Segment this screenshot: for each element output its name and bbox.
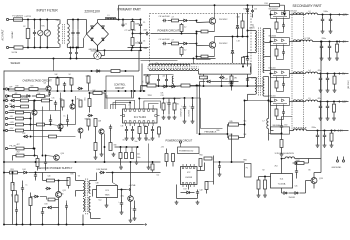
junction — [64, 90, 66, 92]
toroid winding 41 — [293, 40, 303, 42]
wire C3 top — [72, 20, 74, 30]
wire r54 down — [12, 191, 14, 225]
wire ovp top link — [49, 77, 72, 79]
mag amp coil — [294, 129, 307, 131]
svg-text:10u: 10u — [157, 175, 160, 177]
capacitor C13 — [246, 77, 249, 82]
wire ps-on 2 — [24, 148, 35, 150]
svg-text:POWER CIRCUIT: POWER CIRCUIT — [158, 29, 180, 33]
wire T1 tap 3 — [264, 56, 270, 58]
wire +5V sense out — [24, 118, 31, 120]
wire feedback vertical 2 — [196, 86, 198, 135]
capacitor C20 vcc — [183, 104, 186, 110]
wire C snub lead — [122, 20, 124, 23]
resistor R19 — [15, 88, 24, 91]
pin LM339 bottom 3 — [190, 183, 192, 185]
wire drive L down — [173, 84, 175, 86]
wire r48 d — [166, 162, 168, 167]
wire snub r2 101 — [276, 116, 278, 120]
wire T1 tap 1 — [264, 28, 270, 30]
wire reg right v — [320, 159, 322, 173]
capacitor CY1 — [69, 51, 72, 56]
junction — [129, 102, 131, 104]
transistor Q11 — [56, 192, 62, 198]
capacitor CY2 — [75, 51, 78, 56]
svg-text:220VAC: 220VAC — [11, 31, 14, 39]
svg-text:R50: R50 — [200, 155, 203, 157]
capacitor C22 — [230, 81, 233, 87]
junction — [317, 130, 319, 132]
resistor load -5V — [333, 76, 336, 84]
wire choke A bottom — [59, 44, 61, 48]
arrow +5V — [338, 41, 341, 43]
wire r59 u — [258, 177, 260, 181]
wire r56 d — [68, 186, 70, 189]
capacitor C11 vcc — [191, 104, 194, 110]
wire T4 tap down — [75, 191, 77, 197]
wire r60 u — [264, 177, 266, 181]
svg-text:Q3: Q3 — [44, 83, 46, 85]
wire snub r 14 — [276, 18, 278, 23]
junction — [34, 19, 36, 21]
wire bridge plus up — [97, 20, 99, 23]
wire ic3 in jog — [113, 183, 118, 186]
terminal left 100 — [5, 99, 7, 101]
wire r55 down — [30, 206, 32, 225]
transistor Q6b — [58, 124, 63, 129]
T2 core dash 1 — [148, 66, 199, 68]
wire +12V sense out — [24, 124, 31, 126]
resistor R71 — [131, 153, 134, 159]
junction — [91, 70, 93, 72]
wire c30-r47 — [281, 134, 283, 140]
wire R39 d — [174, 110, 176, 115]
wire q13 c — [313, 173, 315, 178]
wire shield parallel segment — [141, 59, 178, 61]
svg-text:C15: C15 — [52, 97, 55, 99]
IC U2 LM339 — [181, 167, 198, 185]
transistor Q8 — [78, 128, 83, 133]
diode D16 — [206, 80, 212, 83]
junction — [270, 41, 272, 43]
junction — [196, 20, 198, 22]
wire c39 d — [219, 169, 221, 173]
wire ctl vert 49 — [49, 98, 51, 111]
wire snub c2 14 — [283, 28, 285, 33]
wire R42b u — [158, 126, 160, 127]
wire R35-R36 — [95, 127, 97, 143]
resistor R49 — [172, 154, 175, 162]
terminal GROUND 2 — [342, 160, 344, 162]
wire R21 top — [57, 77, 59, 80]
toroid winding 73 — [293, 72, 303, 74]
wire D5 to base node — [189, 20, 197, 22]
junction — [137, 146, 139, 148]
svg-text:POWERGOOD: POWERGOOD — [179, 151, 194, 153]
ground pg2 — [196, 201, 200, 205]
wire z2 — [16, 100, 21, 102]
svg-text:1n: 1n — [26, 185, 28, 187]
wire -5V rail — [318, 73, 349, 75]
arrow +12V — [338, 14, 341, 16]
wire pg label lead — [180, 143, 182, 147]
wire gnd c drop — [148, 144, 150, 166]
wire +5V cap gnd lead — [321, 49, 323, 57]
junction — [247, 85, 249, 87]
wire z1 — [8, 100, 11, 102]
resistor R5 — [172, 19, 179, 22]
svg-text:D17: D17 — [184, 189, 187, 191]
ground R60 — [263, 194, 267, 198]
junction — [196, 85, 198, 87]
T4 secondary upper — [89, 181, 91, 194]
varistor Z1 — [44, 30, 50, 36]
wire drive lower rail — [199, 73, 252, 75]
dotted column 2 — [303, 13, 305, 132]
capacitor filter +5V x329 — [328, 44, 331, 49]
capacitor filter -12V x327 — [326, 104, 329, 109]
wire choke A top — [59, 20, 61, 25]
wire d27 l — [282, 192, 283, 194]
svg-text:R26: R26 — [217, 130, 220, 132]
wire snub r2 41 — [276, 56, 278, 60]
wire C35 d — [67, 123, 69, 127]
svg-text:2200u: 2200u — [312, 127, 317, 129]
junction — [82, 224, 84, 226]
wire c31r u — [296, 165, 298, 169]
wire C26 join — [284, 14, 286, 16]
diode D4 — [102, 38, 105, 41]
resistor snub 41 — [275, 49, 278, 56]
wire +3.3V sense out — [24, 112, 31, 114]
capacitor C27 — [21, 185, 24, 191]
T4 core dash 1 — [85, 179, 87, 215]
junction — [34, 100, 36, 102]
diode glyphs D21 — [273, 71, 287, 76]
pin 11 TL494 bottom — [138, 121, 140, 123]
svg-text:C8 1uF/100V: C8 1uF/100V — [159, 16, 171, 18]
ground R39 — [173, 116, 177, 120]
ground capacitor C18 — [125, 137, 129, 141]
wire gnd term 1 — [337, 157, 339, 160]
wire routing above TL494 — [111, 99, 164, 110]
resistor R63 — [49, 135, 57, 138]
wire gnd term 2 — [343, 157, 345, 160]
wire bus extend — [270, 73, 272, 131]
svg-text:+5V: +5V — [342, 41, 347, 44]
svg-text:Q10: Q10 — [61, 153, 64, 155]
wire 3.3 cap lead — [324, 131, 326, 135]
wire -12V rail — [318, 101, 349, 103]
svg-text:SBL3040: SBL3040 — [269, 35, 276, 37]
transistor Q7 — [99, 129, 104, 134]
wire ctl vert 33 — [33, 101, 35, 149]
wire ic3 left d — [92, 190, 94, 197]
diode D17 — [185, 191, 191, 194]
wire c30 t — [281, 121, 283, 125]
junction — [34, 155, 36, 157]
svg-text:F1 5A/250V: F1 5A/250V — [13, 15, 24, 18]
svg-text:IC1 TL494: IC1 TL494 — [134, 115, 147, 119]
junction — [126, 146, 128, 148]
junction — [125, 90, 127, 92]
pin TL494 left — [123, 115, 125, 117]
wire +5 to regulator — [320, 42, 322, 159]
wire c30 to col — [282, 116, 293, 118]
wire C4 bottom — [77, 36, 79, 47]
junction — [39, 19, 41, 21]
ground resistor R41 — [144, 137, 148, 141]
junction — [125, 70, 127, 72]
wire snub r 73 — [276, 77, 278, 82]
wire T1 ls top — [264, 76, 268, 78]
wire ctl vert 60 — [60, 93, 62, 131]
wire C11b up — [166, 75, 168, 78]
diode D5 — [182, 19, 188, 22]
ground cluster a — [119, 166, 123, 170]
junction — [72, 19, 74, 21]
junction — [35, 172, 37, 174]
svg-text:2SC4242: 2SC4242 — [219, 43, 228, 45]
ground pg1 — [175, 201, 179, 205]
junction — [296, 162, 298, 164]
svg-text:4K7: 4K7 — [17, 144, 20, 146]
inductor L4 — [306, 72, 318, 74]
wire r65-c36 — [16, 202, 18, 208]
wire 3.3 cap gnd — [317, 138, 319, 144]
wire aux top drop — [247, 78, 249, 87]
wire bridge AC2 jog — [83, 39, 85, 48]
junction — [184, 97, 186, 99]
svg-text:R2: R2 — [263, 170, 265, 172]
diode D3 — [91, 38, 94, 41]
junction — [268, 100, 270, 102]
svg-text:PRIMARY PART: PRIMARY PART — [118, 8, 142, 12]
junction — [284, 14, 286, 16]
junction — [242, 36, 244, 38]
wire ctl horiz 124 — [61, 124, 76, 126]
terminal left 88.5 — [5, 88, 7, 90]
junction — [199, 85, 201, 87]
wire c23 d — [197, 195, 199, 199]
svg-text:PS-ON: PS-ON — [10, 146, 17, 148]
junction — [247, 36, 249, 38]
capacitor C11b — [165, 78, 168, 83]
wire z5 — [8, 106, 11, 108]
wire r55 up — [30, 193, 32, 198]
resistor R47 — [280, 140, 283, 148]
wire coil out — [295, 158, 321, 160]
svg-text:T308: T308 — [307, 38, 311, 40]
arrow -12V — [338, 101, 341, 103]
svg-text:LM339: LM339 — [185, 177, 192, 179]
wire -5V res lead — [334, 74, 336, 77]
wire T1 tap 2 — [264, 42, 270, 44]
junction — [196, 85, 198, 87]
wire standby bottom rail — [4, 224, 144, 226]
wire R36 down — [95, 151, 97, 156]
pin 9 TL494 bottom — [129, 121, 131, 123]
junction — [131, 49, 133, 51]
resistor R35 — [94, 119, 97, 127]
resistor R64 — [87, 119, 90, 126]
svg-text:2200u: 2200u — [322, 38, 327, 40]
terminal GROUND 1 — [336, 160, 338, 162]
wire Z1 bottom lead — [46, 36, 48, 47]
pin 6 TL494 top — [148, 109, 150, 111]
wire feedback drop — [199, 86, 201, 135]
diode D24 — [22, 171, 28, 174]
resistor R61 — [13, 95, 21, 98]
junction — [97, 49, 99, 51]
transistor Q5 — [70, 104, 75, 109]
wire ic3 out — [118, 189, 127, 191]
ground R47 — [280, 153, 284, 157]
capacitor C28s — [41, 209, 44, 215]
resistor R16 snubber — [270, 4, 280, 7]
wire aux bottom — [248, 93, 256, 95]
svg-text:D16: D16 — [205, 78, 208, 80]
wire Q7 e down — [101, 134, 103, 152]
wire fb upper link — [201, 128, 223, 130]
transistor Q4 — [32, 110, 37, 115]
capacitor C3 — [71, 30, 74, 36]
resistor R23 — [87, 76, 90, 83]
toroid winding 130 — [293, 129, 303, 131]
reg coil — [285, 157, 295, 159]
wire pg right vertical — [213, 156, 215, 185]
wire R15 up — [231, 74, 233, 76]
resistor R69 — [125, 153, 128, 159]
svg-text:D83-004: D83-004 — [269, 95, 276, 97]
wire R14 up — [203, 74, 205, 76]
wire D8 bottom — [232, 53, 234, 64]
junction — [57, 77, 59, 79]
junction — [244, 124, 246, 126]
resistor R21 — [56, 78, 59, 85]
wire snub c 14 — [283, 18, 285, 24]
diode D26s — [45, 187, 51, 190]
svg-text:1n: 1n — [125, 24, 127, 26]
wire +5V res gnd lead — [336, 52, 338, 56]
wire C21 d — [168, 106, 170, 115]
svg-text:2.2: 2.2 — [184, 27, 186, 29]
junction — [3, 130, 5, 132]
choke winding A — [58, 24, 60, 44]
wire -12V sense lead — [8, 130, 15, 132]
wire r33 left — [13, 155, 17, 157]
capacitor C34 — [48, 90, 51, 96]
wire rail link — [250, 67, 252, 73]
wire R22 top — [71, 77, 73, 80]
choke core dash 1 — [62, 24, 64, 44]
wire bus to D23 — [271, 130, 274, 132]
pin LM339 top 2 — [186, 167, 188, 169]
wire C7 to drive mid — [151, 33, 197, 35]
wire bridge AC1 lead — [86, 20, 88, 35]
wire c28s up — [42, 208, 44, 211]
wire R3 to R4 — [132, 30, 134, 38]
wire r45 out — [239, 124, 245, 126]
wire left drive vertical — [141, 64, 143, 87]
junction — [237, 36, 239, 38]
wire T1 ls bottom — [264, 95, 268, 97]
junction — [320, 101, 322, 103]
svg-text:AC INPUT: AC INPUT — [2, 29, 5, 41]
wire C11 down — [192, 110, 194, 120]
wire B+ line — [119, 4, 285, 6]
svg-text:R66: R66 — [61, 194, 64, 196]
T4 secondary lower — [89, 197, 91, 213]
junction — [34, 100, 36, 102]
wire r58 up — [308, 159, 310, 164]
junction — [247, 56, 249, 58]
svg-text:1K5: 1K5 — [85, 97, 87, 100]
wire R38 d — [163, 110, 165, 115]
resistor R4 bleeder — [131, 38, 134, 46]
wire d17 r — [191, 192, 194, 194]
wire CY2 bottom — [76, 55, 78, 58]
inductor L5 — [306, 100, 318, 102]
wire q13 c link — [314, 172, 321, 174]
junction — [232, 36, 234, 38]
wire +12V rail — [318, 14, 349, 16]
wire R23 down — [88, 83, 90, 91]
svg-text:C22: C22 — [225, 79, 228, 81]
diode D6 — [182, 42, 188, 45]
pin LM339 top 4 — [193, 167, 195, 169]
wire snub r2 14 — [276, 29, 278, 33]
capacitor C15 — [54, 100, 57, 106]
diode D7 — [236, 25, 239, 28]
wire to L7 — [268, 101, 270, 119]
capacitor C16b — [49, 117, 52, 123]
junction — [104, 146, 106, 148]
wire d33 r — [40, 196, 47, 198]
junction — [70, 47, 72, 49]
wire -5V cap lead — [320, 74, 322, 78]
wire c22 b — [231, 87, 233, 91]
wire drive upper rail — [151, 63, 252, 65]
wire D8 top — [232, 37, 234, 50]
wire R68 up — [120, 147, 122, 153]
resistor R7 emitter — [201, 30, 208, 33]
wire r67 d — [152, 170, 154, 173]
resistor load 3.3 — [330, 133, 333, 141]
svg-text:+5VSB: +5VSB — [129, 185, 136, 187]
wire q11 c up — [58, 181, 60, 192]
svg-text:L2: L2 — [309, 11, 311, 13]
diode D8 — [231, 50, 234, 53]
diode glyphs D19 — [273, 12, 287, 17]
wire r54 up — [12, 173, 14, 183]
svg-text:1000uF/16V: 1000uF/16V — [181, 108, 183, 116]
ground -5V res — [333, 89, 337, 93]
wire base to Q2 — [197, 44, 210, 46]
wire C4 top — [77, 20, 79, 30]
svg-text:SECONDARY PART: SECONDARY PART — [293, 4, 322, 8]
wire snub c 101 — [283, 105, 285, 111]
wire C11b down — [166, 82, 168, 86]
wire NTC top lead — [39, 20, 41, 31]
junction — [121, 189, 123, 191]
wire C9-R8 — [168, 43, 172, 45]
wire bridge minus down — [97, 46, 99, 52]
wire r60 d — [264, 189, 266, 194]
junction — [3, 172, 5, 174]
T2 core dash 2 — [148, 67, 199, 69]
junction — [320, 73, 322, 75]
